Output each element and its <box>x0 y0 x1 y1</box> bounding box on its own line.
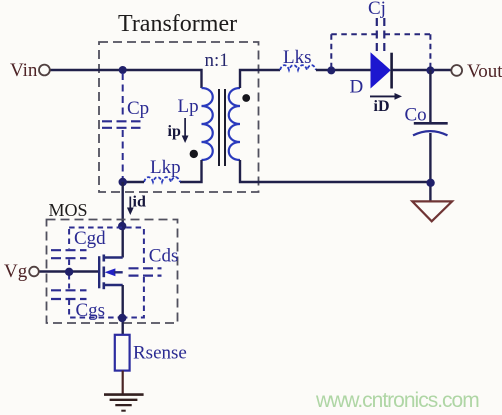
svg-text:www.cntronics.com: www.cntronics.com <box>315 389 479 412</box>
capacitor path top dashed (drain to Cgd/Cds) <box>69 227 144 229</box>
svg-text:Lp: Lp <box>178 96 199 117</box>
capacitor Co bottom plate curved <box>413 131 448 135</box>
capacitor Cgs lead upper <box>68 274 70 289</box>
svg-text:n:1: n:1 <box>205 50 229 71</box>
transistor Q1 drain stub <box>104 256 123 258</box>
node junction Cp/Lkp/drain <box>119 178 127 186</box>
svg-text:Cp: Cp <box>127 98 149 119</box>
resistor Rsense body <box>115 335 130 371</box>
capacitor Cj top leads dashed <box>331 33 430 35</box>
svg-text:Vout: Vout <box>467 61 502 82</box>
transistor Q1 body arrow <box>105 268 116 276</box>
capacitor Cj plates dashed <box>377 18 385 51</box>
node junction source <box>118 314 126 322</box>
capacitor Cgd lead lower <box>68 260 70 270</box>
wire Co to bottom rail <box>429 133 431 201</box>
terminal Vout circle <box>451 65 462 76</box>
capacitor Cgs plates <box>51 290 87 299</box>
node junction gate <box>65 268 73 276</box>
svg-text:Lks: Lks <box>283 47 312 68</box>
node dot primary polarity <box>190 150 198 158</box>
capacitor Cgs lead lower <box>69 300 120 318</box>
arrow head ip <box>182 136 189 144</box>
wire dot-to-Lkp <box>123 181 144 183</box>
svg-text:Co: Co <box>405 105 427 126</box>
capacitor Cds plates <box>129 268 162 275</box>
inductor Lks squiggle <box>280 65 316 70</box>
node junction diode anode <box>327 66 335 74</box>
capacitor Cds lead lower <box>124 277 144 318</box>
svg-text:Vin: Vin <box>10 60 38 81</box>
node junction ground/rail <box>426 179 434 187</box>
terminal Vin circle <box>39 65 50 76</box>
arrow ip <box>184 118 186 138</box>
transistor Q1 gate bar <box>98 256 100 288</box>
diode D cathode bar <box>390 53 393 89</box>
wire Lks to diode <box>316 69 371 71</box>
diode D triangle <box>371 52 391 88</box>
wire diode to Vout <box>393 69 452 71</box>
wire Rsense to ground <box>122 371 124 394</box>
arrow iD <box>370 95 398 97</box>
wire drain vertical <box>121 182 123 258</box>
wire Vout junction down to Co <box>429 70 431 123</box>
inductor Ls secondary winding <box>229 88 240 160</box>
svg-text:D: D <box>350 77 364 98</box>
svg-text:Transformer: Transformer <box>118 11 237 37</box>
capacitor Co top plate <box>414 122 448 125</box>
wire Vg to gate <box>39 270 99 272</box>
wire Vin to primary <box>51 70 202 88</box>
wire primary bottom lead <box>180 160 202 182</box>
capacitor Cgd lead upper <box>68 229 70 249</box>
MOS dashed box <box>47 220 178 324</box>
svg-text:Cgd: Cgd <box>74 228 106 249</box>
node junction Vin/Cp <box>119 66 127 74</box>
capacitor Cj right lead dashed <box>429 34 431 68</box>
ground right triangle <box>412 201 452 221</box>
svg-text:Lkp: Lkp <box>150 157 181 178</box>
wire secondary bottom lead <box>240 160 430 182</box>
capacitor Cj left lead dashed <box>330 34 332 68</box>
svg-text:Cj: Cj <box>368 0 386 19</box>
transistor Q1 channel segments <box>103 255 106 290</box>
node junction drain <box>118 222 126 230</box>
svg-text:iD: iD <box>374 98 390 115</box>
arrow head iD <box>395 93 403 100</box>
transformer core <box>219 89 225 166</box>
inductor Lkp squiggle <box>144 177 180 182</box>
node junction Vout/Co <box>426 66 434 74</box>
svg-text:id: id <box>133 194 146 211</box>
wire secondary top lead <box>240 70 280 88</box>
capacitor Cds lead upper <box>143 229 145 267</box>
capacitor Cp plates <box>102 121 141 128</box>
svg-text:Cds: Cds <box>149 246 179 267</box>
capacitor Cgd plates <box>51 250 87 258</box>
svg-text:MOS: MOS <box>49 200 88 220</box>
wire source down <box>121 285 123 335</box>
node dot secondary polarity <box>242 94 250 102</box>
transformer dashed box <box>99 42 259 192</box>
terminal Vg circle <box>29 267 39 277</box>
inductor Lp primary winding <box>202 88 213 160</box>
svg-text:Rsense: Rsense <box>133 343 187 364</box>
arrow head id <box>127 208 134 216</box>
transistor Q1 source stub <box>104 284 123 286</box>
capacitor Cp leads (dashed) <box>122 73 124 179</box>
arrow id <box>129 197 131 211</box>
svg-text:ip: ip <box>168 123 181 140</box>
svg-text:Vg: Vg <box>4 261 28 282</box>
transistor Q1 body stub <box>114 271 123 273</box>
ground left symbol <box>104 395 144 411</box>
